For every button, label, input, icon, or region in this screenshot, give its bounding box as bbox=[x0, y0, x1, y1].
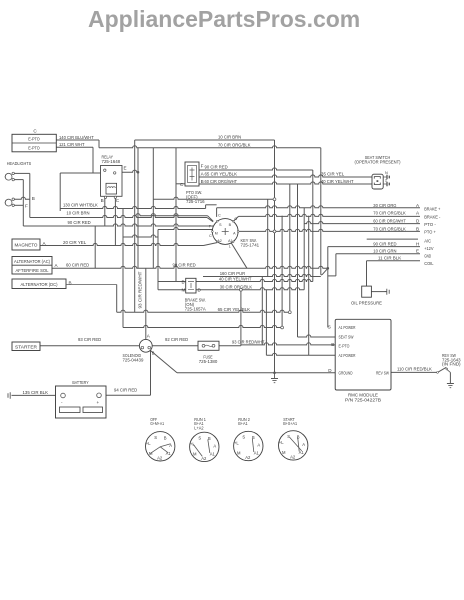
svg-text:ALTERNATOR (AC): ALTERNATOR (AC) bbox=[14, 259, 50, 264]
svg-text:ALTERNATOR (DC): ALTERNATOR (DC) bbox=[21, 282, 58, 287]
svg-text:REV SW: REV SW bbox=[376, 371, 389, 376]
svg-text:90 CIR RED: 90 CIR RED bbox=[68, 220, 92, 225]
svg-text:M: M bbox=[237, 451, 241, 456]
svg-text:H: H bbox=[416, 242, 419, 247]
svg-text:+12V: +12V bbox=[424, 246, 434, 251]
svg-text:OIL PRESSURE: OIL PRESSURE bbox=[351, 300, 382, 305]
svg-text:AppliancePartsPros.com: AppliancePartsPros.com bbox=[88, 6, 360, 32]
svg-text:30 CIR ORG/BLK: 30 CIR ORG/BLK bbox=[220, 285, 253, 290]
svg-text:70 CIR ORG/BLK: 70 CIR ORG/BLK bbox=[218, 142, 251, 147]
svg-text:135 CIR BLK: 135 CIR BLK bbox=[23, 390, 49, 395]
svg-text:90 CIR RED: 90 CIR RED bbox=[373, 242, 397, 247]
svg-text:G: G bbox=[234, 217, 237, 221]
svg-text:A/C: A/C bbox=[424, 239, 432, 244]
svg-text:A1: A1 bbox=[210, 451, 216, 456]
svg-text:A2: A2 bbox=[290, 454, 296, 459]
svg-text:+L: +L bbox=[146, 441, 151, 446]
svg-text:93 CIR RED: 93 CIR RED bbox=[78, 337, 102, 342]
svg-text:COIL: COIL bbox=[424, 261, 434, 266]
svg-text:S: S bbox=[154, 435, 157, 440]
svg-text:90 CIR RED: 90 CIR RED bbox=[173, 263, 197, 268]
svg-text:B+A1: B+A1 bbox=[238, 421, 248, 426]
svg-text:A: A bbox=[302, 442, 305, 447]
svg-text:90 CIR RED: 90 CIR RED bbox=[205, 165, 229, 170]
svg-text:A: A bbox=[257, 443, 260, 448]
svg-text:A: A bbox=[213, 443, 216, 448]
svg-text:MAGNETO: MAGNETO bbox=[15, 243, 38, 248]
svg-text:94 CIR RED: 94 CIR RED bbox=[114, 388, 138, 393]
svg-text:+L: +L bbox=[279, 440, 284, 445]
svg-text:725-1741: 725-1741 bbox=[241, 242, 260, 247]
svg-text:725-1716: 725-1716 bbox=[186, 199, 205, 204]
svg-text:A2 POWER: A2 POWER bbox=[339, 353, 356, 358]
svg-text:S: S bbox=[242, 435, 245, 440]
svg-text:B+S+A1: B+S+A1 bbox=[283, 421, 297, 426]
svg-text:65 CIR YEL/BLK: 65 CIR YEL/BLK bbox=[205, 172, 238, 177]
svg-text:BRAKE +: BRAKE + bbox=[424, 207, 440, 212]
svg-text:B: B bbox=[331, 342, 334, 347]
svg-text:B: B bbox=[208, 436, 211, 441]
svg-text:+: + bbox=[97, 400, 100, 405]
svg-text:A2: A2 bbox=[217, 239, 221, 243]
svg-text:A2: A2 bbox=[201, 456, 207, 461]
svg-text:L+A2: L+A2 bbox=[194, 425, 204, 430]
svg-text:121 CIR WHT: 121 CIR WHT bbox=[59, 142, 85, 147]
svg-text:B: B bbox=[416, 226, 419, 231]
svg-text:F: F bbox=[201, 164, 204, 169]
svg-text:AFTERFIRE SOL: AFTERFIRE SOL bbox=[16, 268, 49, 273]
svg-text:B: B bbox=[101, 198, 104, 203]
svg-text:N: N bbox=[385, 171, 388, 175]
svg-text:A2: A2 bbox=[245, 455, 251, 460]
svg-text:70 CIR ORG/BLK: 70 CIR ORG/BLK bbox=[373, 211, 406, 216]
svg-text:GROUND: GROUND bbox=[339, 371, 353, 376]
svg-text:(OPERATOR PRESENT): (OPERATOR PRESENT) bbox=[355, 160, 401, 165]
svg-text:M: M bbox=[193, 451, 197, 456]
svg-text:GND: GND bbox=[424, 254, 431, 259]
svg-text:140 CIR BLU/WHT: 140 CIR BLU/WHT bbox=[59, 135, 94, 140]
svg-text:PTO +: PTO + bbox=[424, 229, 436, 234]
svg-text:35 CIR YEL: 35 CIR YEL bbox=[321, 171, 345, 176]
svg-text:60 CIR RED: 60 CIR RED bbox=[66, 263, 90, 268]
svg-text:A1: A1 bbox=[228, 239, 232, 243]
svg-text:L: L bbox=[229, 245, 231, 249]
svg-text:92 CIR RED: 92 CIR RED bbox=[165, 337, 189, 342]
svg-text:BRAKE -: BRAKE - bbox=[424, 214, 441, 219]
svg-text:SEAT SW: SEAT SW bbox=[339, 335, 354, 340]
svg-text:S: S bbox=[328, 324, 331, 329]
svg-text:60 CIR ORG/WHT: 60 CIR ORG/WHT bbox=[205, 179, 238, 184]
svg-text:M: M bbox=[215, 232, 218, 236]
svg-text:B: B bbox=[201, 179, 204, 184]
svg-text:P/N 725-04227B: P/N 725-04227B bbox=[345, 397, 381, 402]
svg-text:B: B bbox=[32, 196, 35, 201]
svg-text:110 CIR RED/BLK: 110 CIR RED/BLK bbox=[397, 366, 433, 371]
svg-text:B: B bbox=[182, 279, 185, 284]
svg-text:E-PTO: E-PTO bbox=[339, 344, 350, 349]
svg-text:HEADLIGHTS: HEADLIGHTS bbox=[7, 161, 32, 166]
svg-text:B: B bbox=[152, 351, 155, 356]
svg-text:725-1648: 725-1648 bbox=[102, 159, 121, 164]
svg-text:A1 POWER: A1 POWER bbox=[339, 325, 356, 330]
svg-text:10 CIR BRN: 10 CIR BRN bbox=[66, 211, 89, 216]
svg-text:E: E bbox=[416, 249, 419, 254]
svg-text:10 CIR BRN: 10 CIR BRN bbox=[218, 135, 241, 140]
svg-text:A: A bbox=[169, 443, 172, 448]
svg-text:30 CIR ORG: 30 CIR ORG bbox=[373, 203, 397, 208]
svg-text:BATTERY: BATTERY bbox=[72, 380, 88, 385]
svg-text:M: M bbox=[182, 288, 186, 293]
svg-text:11 CIR BLK: 11 CIR BLK bbox=[378, 256, 402, 261]
svg-text:93 CIR RED/WHT: 93 CIR RED/WHT bbox=[232, 340, 265, 345]
svg-text:B: B bbox=[297, 434, 300, 439]
svg-text:(IN FND): (IN FND) bbox=[442, 362, 461, 367]
svg-text:A1: A1 bbox=[254, 451, 260, 456]
svg-text:40 CIR YEL/WHT: 40 CIR YEL/WHT bbox=[219, 276, 252, 281]
svg-text:PTO -: PTO - bbox=[424, 222, 436, 227]
svg-text:20 CIR YEL: 20 CIR YEL bbox=[63, 240, 87, 245]
svg-text:C: C bbox=[209, 234, 212, 238]
svg-text:60 CIR ORG/WHT: 60 CIR ORG/WHT bbox=[373, 219, 406, 224]
svg-text:725-1380: 725-1380 bbox=[199, 359, 218, 364]
svg-text:STARTER: STARTER bbox=[15, 344, 38, 349]
svg-text:F: F bbox=[25, 204, 28, 209]
svg-text:725-1657A: 725-1657A bbox=[185, 307, 207, 312]
svg-text:70 CIR ORG/BLK: 70 CIR ORG/BLK bbox=[373, 226, 406, 231]
svg-text:+L: +L bbox=[234, 441, 239, 446]
svg-text:E: E bbox=[124, 166, 127, 171]
svg-text:C: C bbox=[218, 214, 221, 218]
svg-text:40 CIR YEL/WHT: 40 CIR YEL/WHT bbox=[321, 179, 354, 184]
svg-text:S: S bbox=[198, 435, 201, 440]
svg-text:E-PTO: E-PTO bbox=[28, 137, 40, 142]
svg-text:93 CIR RED/WHT: 93 CIR RED/WHT bbox=[138, 271, 143, 308]
svg-text:2: 2 bbox=[385, 178, 387, 182]
svg-text:130 CIR WHT/BLK: 130 CIR WHT/BLK bbox=[63, 202, 99, 207]
svg-text:G+M+A1: G+M+A1 bbox=[150, 421, 164, 426]
svg-text:10 CIR GRN: 10 CIR GRN bbox=[373, 249, 396, 254]
svg-text:A2: A2 bbox=[157, 455, 163, 460]
svg-text:65 CIR YEL/BLK: 65 CIR YEL/BLK bbox=[218, 307, 251, 312]
svg-text:B: B bbox=[164, 435, 167, 440]
svg-text:725-04439: 725-04439 bbox=[123, 358, 144, 363]
svg-text:E-PTO: E-PTO bbox=[28, 145, 40, 150]
svg-text:M: M bbox=[282, 450, 286, 455]
